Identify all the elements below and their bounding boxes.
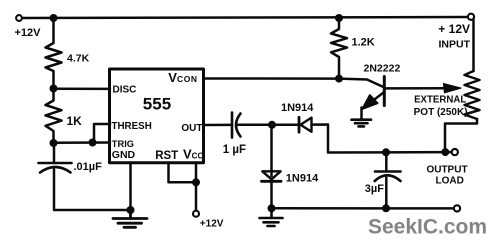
terminal +12V input top-right bbox=[468, 14, 474, 20]
wire collector / pot wiper bbox=[385, 87, 449, 90]
wire bottom output rail bbox=[272, 207, 454, 210]
wire to DISC pin bbox=[54, 87, 111, 90]
node: 1K/cap/TRIG junction bbox=[50, 139, 58, 147]
svg-text:4.7K: 4.7K bbox=[67, 53, 90, 65]
diode D2 triangle bbox=[262, 171, 280, 179]
wire D1 to output rail bbox=[312, 125, 446, 153]
terminal output load top bbox=[452, 149, 458, 155]
node: VCON/1.2K/base junction bbox=[335, 75, 343, 83]
capacitor C3 3uF top lead bbox=[385, 152, 388, 171]
svg-text:1 µF: 1 µF bbox=[223, 144, 246, 156]
node: GND/ground junction bbox=[127, 206, 135, 214]
resistor R1 4.7K bbox=[46, 18, 62, 89]
capacitor C1 .01uF curved plate bbox=[40, 167, 71, 173]
capacitor C2 1uF curved plate bbox=[236, 114, 241, 137]
terminal +12V top-left bbox=[16, 15, 22, 21]
capacitor C2 1uF left plate bbox=[231, 113, 234, 138]
diode D1 triangle bbox=[301, 118, 312, 132]
transistor Q1 emitter arrow bbox=[363, 95, 378, 109]
wire D2 to ground rail bbox=[270, 181, 273, 208]
node: RST/VCC junction bbox=[192, 178, 200, 186]
wire OUT pin bbox=[204, 124, 232, 127]
ground under D2 bbox=[260, 208, 283, 226]
svg-text:TRIG: TRIG bbox=[112, 139, 134, 149]
svg-text:DISC: DISC bbox=[113, 84, 137, 95]
svg-text:3µF: 3µF bbox=[365, 183, 384, 195]
node: top of 4.7K bbox=[50, 14, 58, 22]
capacitor C1 .01uF top plate bbox=[39, 162, 72, 165]
node: 4.7K/1K/DISC junction bbox=[50, 85, 58, 93]
diode D2 1N914 vertical: wire from junction bbox=[270, 125, 273, 176]
transistor Q1 2N2222 base wire bbox=[339, 79, 384, 87]
svg-text:INPUT: INPUT bbox=[439, 38, 471, 50]
wire THRESH L-link bbox=[94, 124, 110, 143]
potentiometer R4 external pot 250K bbox=[465, 71, 480, 119]
svg-text:OUTPUT: OUTPUT bbox=[426, 165, 467, 176]
pin GND wire bbox=[129, 163, 132, 211]
node: output rail / 3uF top junction bbox=[382, 148, 390, 156]
wire pot bottom to output node bbox=[445, 119, 477, 152]
svg-text:+ 12V: + 12V bbox=[438, 22, 470, 36]
terminal output load bottom bbox=[454, 205, 460, 211]
wire VCON to 1.2K junction bbox=[204, 77, 340, 80]
IC U1 555 box bbox=[110, 69, 204, 163]
resistor R2 1K bbox=[46, 89, 62, 144]
svg-text:OUT: OUT bbox=[181, 123, 202, 134]
svg-text:GND: GND bbox=[112, 149, 136, 161]
svg-text:.01µF: .01µF bbox=[74, 161, 103, 173]
svg-text:555: 555 bbox=[143, 95, 171, 114]
capacitor C1 .01uF top lead bbox=[53, 143, 56, 163]
svg-text:EXTERNAL: EXTERNAL bbox=[414, 94, 466, 105]
wire to top output terminal bbox=[445, 151, 451, 154]
svg-text:POT (250K): POT (250K) bbox=[414, 107, 468, 118]
node: OUT/diodes junction bbox=[268, 121, 276, 129]
svg-text:1N914: 1N914 bbox=[286, 172, 319, 184]
diode D2 cathode bar bbox=[262, 180, 282, 183]
wire emitter to ground bbox=[360, 108, 363, 119]
diode D1 1N914 horizontal: wire bbox=[272, 123, 299, 126]
pot wiper arrowhead bbox=[444, 84, 462, 93]
wire +12V input down to pot bbox=[472, 20, 475, 71]
svg-text:2N2222: 2N2222 bbox=[364, 63, 401, 75]
transistor Q1 emitter bbox=[363, 93, 384, 109]
svg-text:SeekIC.com: SeekIC.com bbox=[368, 215, 487, 238]
node: pot bottom / output junction bbox=[441, 148, 449, 156]
svg-text:+12V: +12V bbox=[200, 219, 224, 230]
transistor Q1 bar bbox=[383, 77, 386, 106]
node: 3uF bottom junction bbox=[382, 204, 390, 212]
resistor R3 1.2K bbox=[331, 18, 347, 79]
ground at emitter bbox=[352, 120, 372, 127]
svg-text:1.2K: 1.2K bbox=[352, 37, 375, 49]
svg-text:1N914: 1N914 bbox=[281, 102, 314, 114]
wire TRIG line bbox=[54, 141, 111, 144]
pin VCC wire bbox=[195, 163, 198, 211]
wire C1 bottom to ground rail bbox=[54, 170, 131, 211]
node: D2/ground rail junction bbox=[268, 204, 276, 212]
svg-text:+12V: +12V bbox=[15, 27, 42, 39]
terminal +12V (VCC) bbox=[193, 211, 199, 217]
capacitor C3 top plate bbox=[375, 170, 401, 173]
capacitor C3 bottom lead bbox=[385, 178, 388, 209]
wire C2 to diode junction bbox=[238, 124, 272, 127]
svg-text:THRESH: THRESH bbox=[112, 121, 152, 132]
capacitor C3 curved plate bbox=[375, 175, 401, 181]
svg-text:RST: RST bbox=[155, 150, 178, 162]
node: 1.2K top bbox=[335, 14, 343, 22]
ground below 555 GND bbox=[113, 210, 147, 227]
svg-text:1K: 1K bbox=[67, 114, 83, 128]
node: THRESH joins TRIG bbox=[89, 139, 97, 147]
svg-text:LOAD: LOAD bbox=[436, 176, 464, 187]
pin RST wire bbox=[169, 163, 197, 183]
diode D1 cathode bar bbox=[298, 117, 301, 132]
wire top +12V rail bbox=[22, 17, 468, 18]
